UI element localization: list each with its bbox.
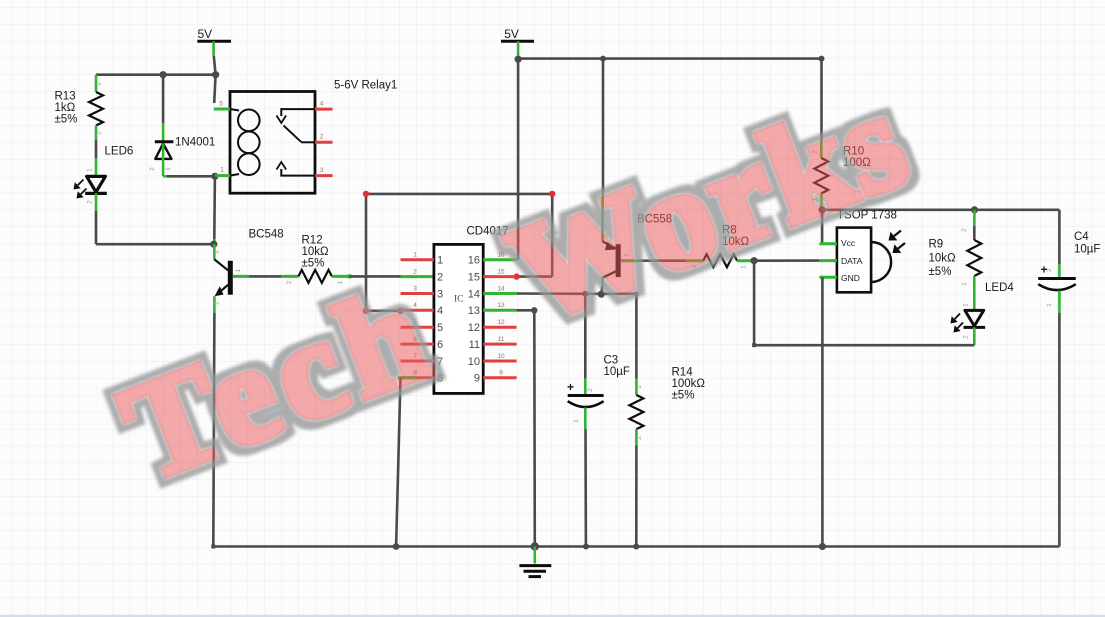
wire IC pin8 to ground rail <box>396 378 400 547</box>
svg-text:±5%: ±5% <box>55 114 78 126</box>
wire Vcc node horizontal to C4 <box>822 209 1059 212</box>
wire LED4 bottom stub <box>973 327 976 345</box>
svg-text:4: 4 <box>320 101 324 108</box>
svg-text:2: 2 <box>437 271 443 283</box>
IC pin 6 (left) <box>401 343 434 346</box>
relay pin 5 stub <box>214 108 230 111</box>
wire BC558 emitter vertical <box>602 59 605 193</box>
wire R8-node down to LED4 <box>753 261 756 346</box>
wire top-left horizontal <box>96 73 216 76</box>
svg-text:15: 15 <box>468 271 480 283</box>
wire ground rail <box>213 545 1059 548</box>
node red dot top-left <box>363 191 369 197</box>
TSOP pin GND stub <box>819 276 837 279</box>
relay switch contacts <box>281 109 315 116</box>
wire C3 node to BC558 collector node <box>585 292 601 295</box>
svg-text:5V: 5V <box>504 27 519 41</box>
svg-text:1N4001: 1N4001 <box>175 136 215 148</box>
node rail junction dot (R14) <box>633 544 639 550</box>
node B junction dot <box>210 241 217 248</box>
svg-text:2: 2 <box>413 268 417 275</box>
node R9 junction dot <box>971 206 978 213</box>
svg-text:R14: R14 <box>672 367 694 379</box>
svg-text:5: 5 <box>219 101 223 108</box>
svg-text:1: 1 <box>87 168 94 172</box>
svg-text:1: 1 <box>1046 303 1053 307</box>
svg-text:5: 5 <box>437 322 443 334</box>
svg-text:+: + <box>1041 263 1048 277</box>
resistor R14 <box>635 379 638 395</box>
node red dot pin4 corner <box>363 308 369 314</box>
LED D6 (LED6) <box>87 176 106 192</box>
bottom blue strip <box>0 615 1105 617</box>
svg-text:1: 1 <box>963 303 970 307</box>
node junction dot at 1N4001 top <box>160 71 167 78</box>
wire net to IC pin4 <box>366 309 401 312</box>
svg-text:10kΩ: 10kΩ <box>302 246 330 258</box>
wire IC pin13 to rail <box>517 309 535 312</box>
svg-text:R13: R13 <box>55 91 76 103</box>
svg-text:2: 2 <box>286 280 293 284</box>
svg-text:1: 1 <box>961 282 968 286</box>
wire IC pin16 up to 5V rail <box>517 62 520 260</box>
node relay-pin1 junction dot <box>211 173 218 180</box>
capacitor C3 <box>584 294 587 379</box>
svg-text:LED4: LED4 <box>985 282 1014 294</box>
svg-text:14: 14 <box>468 288 480 300</box>
IC pin 15 (right) <box>483 275 516 278</box>
node BC558-collector junction dot <box>598 291 605 298</box>
svg-text:4: 4 <box>437 305 443 317</box>
svg-text:C3: C3 <box>604 355 619 367</box>
watermark Tech Works <box>103 254 454 511</box>
wire Vcc node down <box>821 210 824 244</box>
svg-text:3: 3 <box>437 288 443 300</box>
wire net vertical right <box>551 194 554 277</box>
svg-text:3: 3 <box>214 250 221 254</box>
svg-text:2: 2 <box>961 228 968 232</box>
resistor R8 <box>703 254 737 267</box>
wire BC558 base to R8 <box>621 259 637 262</box>
svg-text:2: 2 <box>636 436 643 440</box>
node 5V2 junction dot <box>515 56 522 63</box>
ground symbol <box>533 547 536 564</box>
svg-text:2: 2 <box>87 200 94 204</box>
svg-text:13: 13 <box>497 302 505 309</box>
svg-text:2: 2 <box>587 388 594 392</box>
relay K1 5-6V Relay1 body <box>230 92 315 194</box>
IC pin 16 (right) <box>483 258 516 261</box>
wire node B to BC548 collector <box>213 244 216 259</box>
svg-text:3: 3 <box>320 167 324 174</box>
svg-text:9: 9 <box>474 373 480 385</box>
svg-text:10: 10 <box>468 356 480 368</box>
resistor R10 <box>820 59 823 141</box>
svg-text:+: + <box>567 380 574 394</box>
wire BC548 emitter down <box>213 296 216 313</box>
svg-text:1: 1 <box>437 255 443 267</box>
IC pin 8 (left) <box>401 376 434 379</box>
TSOP light arrows <box>894 231 901 237</box>
wire R14 vertical upper <box>635 294 638 379</box>
svg-text:1: 1 <box>413 252 417 259</box>
TSOP U? TSOP 1738 body <box>837 228 871 293</box>
wire 1N4001 to relay pin1 node <box>166 175 215 178</box>
IC pin 1 (left) <box>401 258 434 261</box>
node red dot pin4 stub <box>397 308 403 314</box>
IC pin 14 (right) <box>483 292 516 295</box>
wire collector node to R14 corner <box>601 292 636 295</box>
IC pin 5 (left) <box>401 326 434 329</box>
svg-text:16: 16 <box>497 252 505 259</box>
wire R13 to LED6 <box>95 140 98 158</box>
svg-text:GND: GND <box>841 273 860 283</box>
svg-text:10kΩ: 10kΩ <box>929 253 957 265</box>
svg-text:10µF: 10µF <box>1074 244 1100 256</box>
resistor R13 <box>95 78 98 92</box>
svg-text:12: 12 <box>468 322 480 334</box>
relay pin 2 stub <box>315 141 333 144</box>
node rail corner dot <box>819 56 825 62</box>
wire net vertical left <box>365 194 368 311</box>
svg-text:3: 3 <box>413 285 417 292</box>
node rail junction dot (pin8 wire) <box>393 543 400 550</box>
relay pin 1 stub <box>215 174 230 177</box>
node rail junction dot (TSOP GND) <box>819 543 826 550</box>
IC pin 11 (right) <box>483 343 516 346</box>
transistor Q? BC558 <box>603 241 616 248</box>
wire BC548 base to R12 <box>233 275 249 278</box>
node BC558 emitter rail dot <box>600 56 606 62</box>
power 5V symbol (left) <box>197 40 231 43</box>
svg-text:R9: R9 <box>929 239 944 251</box>
capacitor C4 <box>1058 210 1061 264</box>
svg-text:1: 1 <box>96 82 103 86</box>
svg-text:1: 1 <box>165 167 172 171</box>
TSOP pin DATA stub <box>819 259 837 262</box>
wire relay pin1 to node B <box>213 176 216 239</box>
LED D? LED4 <box>965 310 984 326</box>
IC pin 3 (left) <box>401 292 434 295</box>
svg-text:14: 14 <box>497 285 505 292</box>
svg-text:9: 9 <box>499 370 503 377</box>
resistor R12 <box>298 270 332 283</box>
diode D? 1N4001 <box>162 75 165 123</box>
relay pin 4 stub <box>315 108 333 111</box>
svg-text:1: 1 <box>636 385 643 389</box>
wire R12 to IC pin2 <box>332 275 350 278</box>
svg-text:10µF: 10µF <box>604 366 630 378</box>
TSOP pin Vcc stub <box>819 242 837 245</box>
wire 5V1 to node A <box>212 41 215 56</box>
node TSOP Vcc junction dot <box>819 206 826 213</box>
svg-text:16: 16 <box>468 255 480 267</box>
svg-text:Vcc: Vcc <box>841 238 856 248</box>
svg-text:5-6V Relay1: 5-6V Relay1 <box>334 80 397 92</box>
svg-text:2: 2 <box>96 131 103 135</box>
svg-text:DATA: DATA <box>841 256 863 266</box>
IC pin 7 (left) <box>401 360 434 363</box>
IC pin 4 (left) <box>401 309 434 312</box>
svg-text:IC: IC <box>454 295 464 305</box>
svg-text:13: 13 <box>468 305 480 317</box>
IC pin 13 (right) <box>483 309 516 312</box>
svg-text:6: 6 <box>437 339 443 351</box>
svg-text:11: 11 <box>469 339 480 351</box>
svg-text:BC548: BC548 <box>249 229 284 241</box>
svg-text:2: 2 <box>963 335 970 339</box>
svg-text:12: 12 <box>497 319 505 326</box>
svg-text:1: 1 <box>220 167 224 174</box>
relay coil <box>230 109 239 111</box>
wire BC558 collector down <box>601 277 604 287</box>
resistor R9 <box>973 210 976 226</box>
wire pin15 to vertical <box>517 275 553 278</box>
svg-text:2: 2 <box>149 167 156 171</box>
svg-text:LED6: LED6 <box>105 145 134 157</box>
svg-text:±5%: ±5% <box>302 258 325 270</box>
node R8-right junction dot <box>751 257 758 264</box>
svg-text:11: 11 <box>498 336 505 343</box>
svg-text:2: 2 <box>320 134 324 141</box>
svg-text:±5%: ±5% <box>929 266 952 278</box>
IC pin 9 (right) <box>483 376 516 379</box>
wire TSOP GND down to rail <box>821 277 824 546</box>
IC pin 12 (right) <box>483 326 516 329</box>
wire net pin15/pin4 top horizontal <box>366 193 552 196</box>
svg-text:1: 1 <box>235 268 242 272</box>
relay pin 3 stub <box>315 174 333 177</box>
wire IC pin14 to C3 node <box>517 292 586 295</box>
power 5V symbol (center) <box>501 40 534 43</box>
svg-text:2: 2 <box>214 301 221 305</box>
node C3-top junction dot <box>582 291 588 297</box>
node A junction dot <box>212 71 219 78</box>
node rail junction dot (ground) <box>531 542 539 550</box>
svg-text:1kΩ: 1kΩ <box>55 102 76 114</box>
IC U? CD4017 body <box>434 244 483 393</box>
svg-text:R12: R12 <box>302 235 323 247</box>
wire LED6 down and right to node B <box>95 193 98 211</box>
node rail junction dot (C3) <box>583 544 589 550</box>
transistor Q? BC548 <box>214 259 228 270</box>
svg-text:100kΩ: 100kΩ <box>672 378 706 390</box>
node red dot pin15 stub <box>513 273 519 279</box>
wire 5V rail horizontal <box>518 57 821 60</box>
node red dot top-right <box>549 191 555 197</box>
svg-text:1: 1 <box>573 419 580 423</box>
wire 5V2 stub <box>517 41 520 57</box>
svg-text:10: 10 <box>497 353 505 360</box>
svg-text:±5%: ±5% <box>672 390 695 402</box>
IC pin 10 (right) <box>483 360 516 363</box>
svg-text:C4: C4 <box>1074 231 1089 243</box>
svg-text:5V: 5V <box>198 27 213 41</box>
svg-text:15: 15 <box>497 268 505 275</box>
wire R8 to TSOP DATA <box>737 259 754 262</box>
